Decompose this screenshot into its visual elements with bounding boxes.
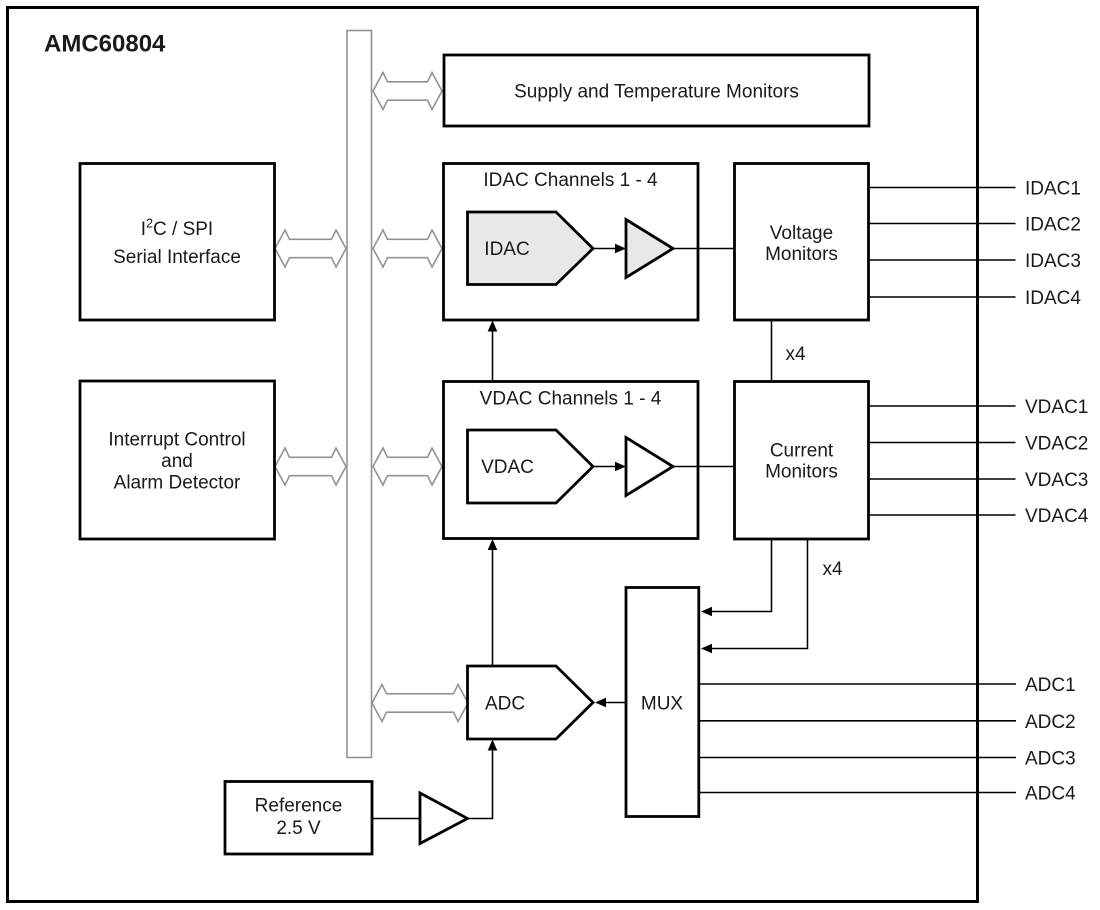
svg-text:IDAC1: IDAC1 xyxy=(1025,179,1081,200)
svg-text:ADC3: ADC3 xyxy=(1025,749,1076,770)
svg-text:ADC4: ADC4 xyxy=(1025,784,1076,805)
svg-text:VDAC Channels 1 - 4: VDAC Channels 1 - 4 xyxy=(480,389,662,410)
svg-text:VDAC3: VDAC3 xyxy=(1025,470,1088,491)
block MUX xyxy=(626,588,699,817)
block Voltage Monitors xyxy=(735,164,869,321)
svg-text:VDAC: VDAC xyxy=(481,457,534,478)
block Current Monitors xyxy=(735,382,869,540)
block VDAC Channels 1 - 4 xyxy=(444,382,699,539)
wire MUX to ADC xyxy=(606,702,626,704)
svg-text:Current: Current xyxy=(770,441,834,462)
svg-text:Supply and Temperature Monitor: Supply and Temperature Monitors xyxy=(514,82,799,103)
svg-text:Monitors: Monitors xyxy=(765,244,838,265)
wire IDAC3 pin xyxy=(869,259,1016,261)
svg-text:AMC60804: AMC60804 xyxy=(44,31,166,58)
wire ADC2 pin xyxy=(699,720,1016,722)
svg-text:x4: x4 xyxy=(823,559,844,580)
svg-text:Reference: Reference xyxy=(255,795,343,816)
wire amp to Voltage Monitors xyxy=(673,248,735,250)
wire IDAC4 pin xyxy=(869,296,1016,298)
VDAC output amp xyxy=(626,438,673,496)
wire IDAC to amp xyxy=(593,248,616,250)
svg-text:Interrupt Control: Interrupt Control xyxy=(108,429,245,450)
bus wire from bus to VDAC channels xyxy=(373,448,442,485)
bus wire to Supply and Temperature Monitors xyxy=(373,73,442,110)
svg-text:ADC1: ADC1 xyxy=(1025,675,1076,696)
wire VDAC3 pin xyxy=(869,478,1016,480)
svg-text:IDAC2: IDAC2 xyxy=(1025,215,1081,236)
block Interrupt Control and Alarm Detector xyxy=(80,381,275,539)
block Supply and Temperature Monitors xyxy=(444,55,869,126)
svg-text:Voltage: Voltage xyxy=(770,223,833,244)
svg-text:Monitors: Monitors xyxy=(765,461,838,482)
svg-text:2.5 V: 2.5 V xyxy=(276,818,321,839)
svg-text:Alarm Detector: Alarm Detector xyxy=(114,473,241,494)
wire buffer to ADC xyxy=(468,750,493,819)
svg-text:IDAC Channels 1 - 4: IDAC Channels 1 - 4 xyxy=(483,170,658,191)
wire VDAC4 pin xyxy=(869,514,1016,516)
bus wire from bus to ADC xyxy=(372,685,468,722)
wire VDAC2 pin xyxy=(869,442,1016,444)
bus wire from bus to IDAC channels xyxy=(373,230,442,267)
block Reference 2.5 V xyxy=(225,782,372,855)
svg-text:ADC2: ADC2 xyxy=(1025,712,1076,733)
svg-text:VDAC2: VDAC2 xyxy=(1025,434,1088,455)
wire Current Monitors to MUX (1) xyxy=(712,539,772,612)
block I2C / SPI Serial Interface xyxy=(80,164,275,321)
IDAC output amp xyxy=(626,220,673,278)
svg-text:IDAC: IDAC xyxy=(484,239,529,260)
wire ADC4 pin xyxy=(699,792,1016,794)
svg-text:IDAC4: IDAC4 xyxy=(1025,288,1081,309)
wire IDAC1 pin xyxy=(869,187,1016,189)
svg-text:VDAC1: VDAC1 xyxy=(1025,397,1088,418)
wire ADC to VDAC channels xyxy=(492,550,494,666)
VDAC converter pentagon xyxy=(468,430,594,503)
wire Reference to buffer xyxy=(372,818,420,820)
wire Current Monitors to MUX (2) x4 xyxy=(712,539,808,649)
bus wire from Interrupt Control to bus xyxy=(275,448,346,485)
bus wire from I2C/SPI to bus xyxy=(275,230,346,267)
svg-text:VDAC4: VDAC4 xyxy=(1025,506,1089,527)
svg-text:MUX: MUX xyxy=(641,694,684,715)
block IDAC Channels 1 - 4 xyxy=(444,164,699,321)
reference buffer amp xyxy=(420,793,468,844)
svg-text:and: and xyxy=(161,451,193,472)
wire amp to Current Monitors xyxy=(673,466,735,468)
wire VDAC1 pin xyxy=(869,405,1016,407)
svg-text:x4: x4 xyxy=(786,344,807,365)
internal bus xyxy=(347,31,372,758)
wire Voltage Monitors to Current Monitors x4 xyxy=(771,320,773,382)
IDAC converter pentagon xyxy=(468,212,594,285)
wire ADC3 pin xyxy=(699,757,1016,759)
wire VDAC to amp xyxy=(593,466,616,468)
ADC converter pentagon xyxy=(468,666,594,739)
wire VDAC channels to IDAC channels xyxy=(492,332,494,382)
svg-text:ADC: ADC xyxy=(485,694,525,715)
svg-text:IDAC3: IDAC3 xyxy=(1025,251,1081,272)
wire ADC1 pin xyxy=(699,683,1016,685)
wire IDAC2 pin xyxy=(869,223,1016,225)
svg-text:Serial Interface: Serial Interface xyxy=(113,247,241,268)
